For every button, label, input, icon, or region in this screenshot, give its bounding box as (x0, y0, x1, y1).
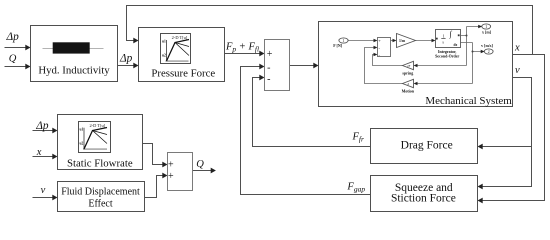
svg-text:Ffr: Ffr (352, 132, 365, 144)
svg-text:Q: Q (9, 54, 17, 65)
svg-text:Drag Force: Drag Force (401, 139, 453, 151)
svg-text:x [m]: x [m] (482, 30, 492, 35)
svg-text:Mechanical System: Mechanical System (425, 95, 512, 107)
svg-text:d: d (408, 82, 410, 86)
svg-text:Fgap: Fgap (346, 181, 365, 193)
svg-text:1: 1 (485, 25, 487, 29)
svg-text:Δp: Δp (35, 120, 49, 132)
svg-text:1: 1 (343, 39, 345, 43)
svg-text:-: - (267, 63, 270, 74)
svg-text:u1: u1 (162, 40, 166, 44)
svg-text:1/m: 1/m (399, 39, 406, 43)
svg-text:dx: dx (454, 43, 458, 47)
svg-text:v: v (41, 185, 46, 196)
svg-text:x: x (514, 43, 520, 54)
svg-text:Hyd. Inductivity: Hyd. Inductivity (38, 64, 110, 76)
svg-text:Pressure Force: Pressure Force (151, 67, 215, 79)
svg-text:Fp + Ff‌l: Fp + Ff‌l (225, 42, 259, 54)
svg-text:u2: u2 (162, 54, 166, 58)
svg-text:Static Flowrate: Static Flowrate (67, 157, 133, 169)
svg-text:2: 2 (488, 50, 490, 54)
svg-text:Effect: Effect (88, 198, 112, 209)
svg-text:2-D T[u]: 2-D T[u] (89, 123, 105, 128)
svg-text:u2: u2 (80, 142, 84, 146)
svg-text:v: v (515, 65, 520, 76)
svg-text:+: + (168, 171, 174, 182)
svg-text:+: + (168, 159, 174, 170)
svg-text:v [m/s]: v [m/s] (481, 43, 493, 48)
svg-text:2-D T[u]: 2-D T[u] (172, 35, 188, 40)
svg-text:u1: u1 (80, 128, 84, 132)
svg-text:cF: cF (407, 64, 411, 68)
svg-text:-: - (267, 74, 270, 85)
svg-text:x: x (36, 147, 42, 158)
svg-text:Δp: Δp (6, 31, 20, 43)
svg-text:Δp: Δp (119, 53, 133, 65)
svg-text:Fluid Displacement: Fluid Displacement (61, 187, 140, 198)
svg-text:Q: Q (196, 159, 204, 170)
svg-text:+: + (378, 38, 381, 43)
svg-text:Motion: Motion (402, 89, 415, 94)
svg-text:spring: spring (402, 71, 413, 76)
svg-text:F [N]: F [N] (333, 43, 343, 48)
svg-text:+: + (267, 49, 273, 60)
svg-text:Second-Order: Second-Order (435, 54, 459, 59)
svg-text:1: 1 (443, 34, 445, 39)
svg-text:Stiction Force: Stiction Force (391, 193, 456, 205)
